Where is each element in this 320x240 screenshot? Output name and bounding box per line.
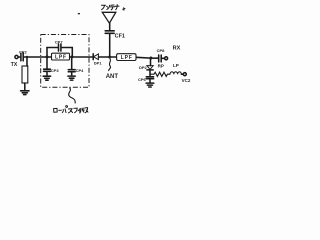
svg-text:DP2: DP2	[139, 65, 148, 70]
svg-text:DP1: DP1	[94, 61, 103, 66]
svg-text:CF1: CF1	[115, 34, 125, 40]
svg-text:RP: RP	[158, 63, 164, 68]
svg-text:ANT: ANT	[106, 74, 119, 80]
svg-text:CP6: CP6	[138, 77, 147, 82]
svg-text:LP: LP	[173, 63, 179, 68]
svg-text:LPF: LPF	[121, 55, 132, 61]
svg-text:CP4: CP4	[76, 68, 85, 73]
svg-text:CP3: CP3	[51, 68, 60, 73]
svg-text:LPF: LPF	[55, 55, 66, 61]
svg-text:CP8: CP8	[157, 48, 166, 53]
svg-text:VC2: VC2	[182, 78, 191, 83]
svg-text:TX: TX	[11, 62, 18, 68]
svg-text:CP2: CP2	[19, 50, 28, 55]
svg-text:CP7: CP7	[55, 39, 64, 44]
svg-text:RX: RX	[173, 45, 181, 51]
